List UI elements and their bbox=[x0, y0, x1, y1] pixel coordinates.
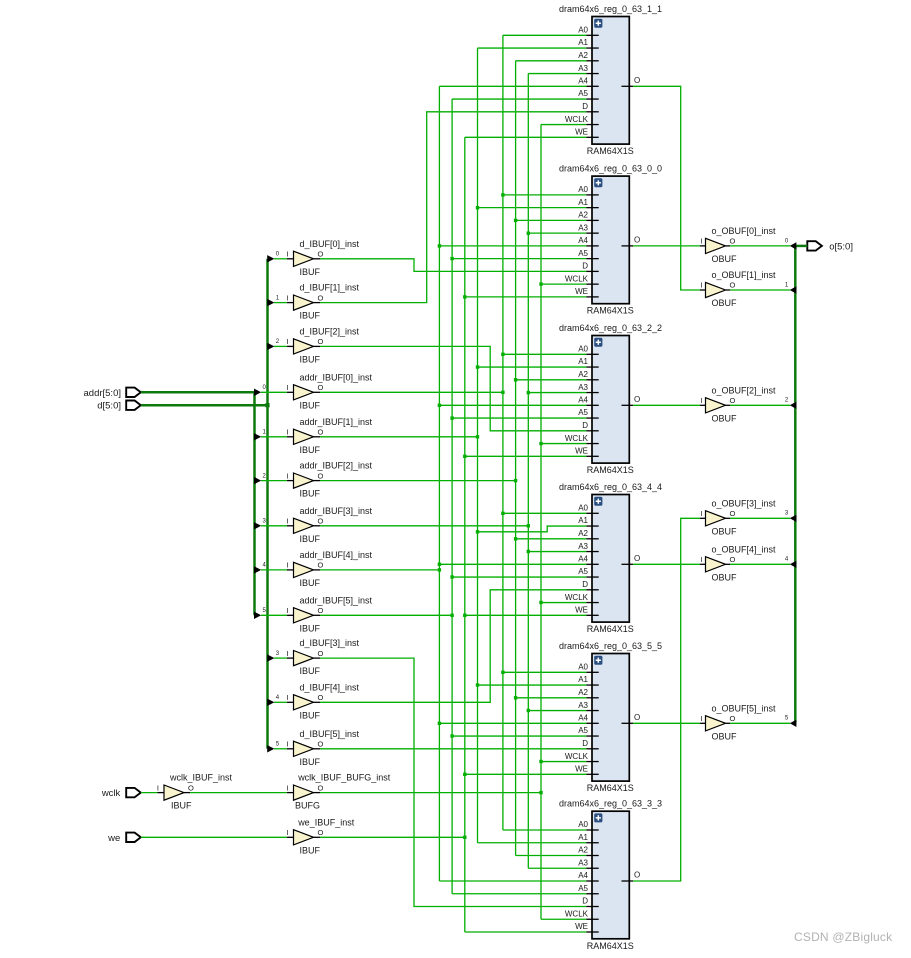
output port o[5:0] bbox=[807, 241, 853, 252]
svg-text:WE: WE bbox=[575, 922, 588, 931]
svg-text:A2: A2 bbox=[578, 370, 588, 379]
svg-text:O: O bbox=[318, 250, 324, 259]
svg-text:A4: A4 bbox=[578, 714, 588, 723]
svg-text:5: 5 bbox=[276, 742, 280, 748]
svg-text:O: O bbox=[634, 871, 640, 880]
svg-text:D: D bbox=[582, 262, 588, 271]
svg-text:WE: WE bbox=[575, 287, 588, 296]
svg-text:0: 0 bbox=[263, 385, 267, 391]
svg-text:O: O bbox=[318, 337, 324, 346]
buffer o_OBUF[4]_inst (OBUF) bbox=[700, 544, 776, 582]
svg-text:O: O bbox=[318, 517, 324, 526]
svg-text:O: O bbox=[634, 713, 640, 722]
svg-text:A1: A1 bbox=[578, 357, 588, 366]
svg-text:A0: A0 bbox=[578, 504, 588, 513]
svg-text:0: 0 bbox=[276, 252, 280, 258]
net block3_3 O to o_OBUF[3] bbox=[633, 518, 700, 881]
svg-text:A4: A4 bbox=[578, 871, 588, 880]
svg-text:1: 1 bbox=[276, 295, 280, 301]
svg-text:2: 2 bbox=[276, 339, 280, 345]
net addr_IBUF[2] vertical+feeds bbox=[514, 61, 586, 856]
svg-text:0: 0 bbox=[785, 238, 789, 244]
svg-text:I: I bbox=[286, 606, 288, 615]
svg-text:dram64x6_reg_0_63_4_4: dram64x6_reg_0_63_4_4 bbox=[559, 482, 662, 492]
svg-text:A4: A4 bbox=[578, 555, 588, 564]
svg-text:d_IBUF[2]_inst: d_IBUF[2]_inst bbox=[300, 326, 360, 336]
svg-text:A2: A2 bbox=[578, 688, 588, 697]
bus tap d[0] bbox=[267, 252, 287, 263]
net d_IBUF[2] to block2_2 D bbox=[320, 346, 586, 430]
svg-text:A0: A0 bbox=[578, 185, 588, 194]
net block4_4 O to o_OBUF[4] bbox=[633, 563, 700, 565]
net d_IBUF[4] to block4_4 D bbox=[320, 590, 586, 703]
input port we bbox=[107, 833, 141, 844]
bus tap o[1] bbox=[730, 282, 796, 293]
input port wclk bbox=[101, 788, 141, 799]
svg-text:O: O bbox=[318, 606, 324, 615]
net block2_2 O to o_OBUF[2] bbox=[633, 404, 700, 406]
wire BUFG output to WCLK vertical bbox=[320, 792, 541, 794]
svg-text:A5: A5 bbox=[578, 726, 588, 735]
svg-text:WE: WE bbox=[575, 606, 588, 615]
svg-text:IBUF: IBUF bbox=[300, 757, 321, 767]
svg-text:I: I bbox=[286, 828, 288, 837]
svg-text:A3: A3 bbox=[578, 64, 588, 73]
wire we port to IBUF bbox=[141, 836, 287, 838]
bus tap o[3] bbox=[730, 511, 796, 522]
svg-text:OBUF: OBUF bbox=[712, 572, 738, 582]
wire addr_IBUF[4] output to vertical bbox=[320, 569, 439, 571]
svg-text:I: I bbox=[286, 250, 288, 259]
svg-text:WCLK: WCLK bbox=[565, 434, 589, 443]
svg-text:A5: A5 bbox=[578, 567, 588, 576]
wire addr_IBUF[3] output to vertical bbox=[320, 525, 528, 527]
svg-text:A0: A0 bbox=[578, 26, 588, 35]
buffer addr_IBUF[4]_inst (IBUF) bbox=[286, 550, 372, 588]
buffer wclk_IBUF_inst (IBUF) bbox=[157, 773, 233, 811]
net addr_IBUF[5] vertical+feeds bbox=[450, 99, 586, 894]
svg-text:dram64x6_reg_0_63_2_2: dram64x6_reg_0_63_2_2 bbox=[559, 323, 662, 333]
svg-text:A5: A5 bbox=[578, 89, 588, 98]
svg-text:OBUF: OBUF bbox=[712, 298, 738, 308]
svg-text:IBUF: IBUF bbox=[300, 354, 321, 364]
bus tap d[3] bbox=[267, 651, 287, 662]
buffer addr_IBUF[0]_inst (IBUF) bbox=[286, 372, 372, 410]
svg-text:I: I bbox=[286, 293, 288, 302]
svg-text:IBUF: IBUF bbox=[300, 267, 321, 277]
net block0_0 O to o_OBUF[0] bbox=[633, 245, 700, 247]
bus tap o[2] bbox=[730, 398, 796, 409]
svg-text:O: O bbox=[730, 237, 736, 246]
svg-text:I: I bbox=[286, 561, 288, 570]
svg-text:IBUF: IBUF bbox=[300, 445, 321, 455]
svg-text:IBUF: IBUF bbox=[300, 845, 321, 855]
bus wire addr[5:0] port to trunk bbox=[141, 391, 254, 394]
svg-text:o_OBUF[0]_inst: o_OBUF[0]_inst bbox=[712, 226, 777, 236]
svg-text:OBUF: OBUF bbox=[712, 526, 738, 536]
bus tap addr[2] bbox=[254, 473, 287, 484]
svg-text:1: 1 bbox=[263, 430, 267, 436]
svg-text:I: I bbox=[157, 783, 159, 792]
svg-text:A3: A3 bbox=[578, 383, 588, 392]
svg-text:d[5:0]: d[5:0] bbox=[97, 401, 121, 412]
bus tap addr[3] bbox=[254, 519, 287, 530]
svg-text:A0: A0 bbox=[578, 663, 588, 672]
svg-text:WE: WE bbox=[575, 447, 588, 456]
svg-text:A1: A1 bbox=[578, 38, 588, 47]
svg-text:A2: A2 bbox=[578, 529, 588, 538]
svg-text:I: I bbox=[286, 428, 288, 437]
svg-text:addr_IBUF[0]_inst: addr_IBUF[0]_inst bbox=[300, 372, 373, 382]
svg-text:I: I bbox=[286, 693, 288, 702]
net block5_5 O to o_OBUF[5] bbox=[633, 722, 700, 724]
svg-text:IBUF: IBUF bbox=[300, 534, 321, 544]
svg-text:IBUF: IBUF bbox=[300, 710, 321, 720]
svg-text:dram64x6_reg_0_63_5_5: dram64x6_reg_0_63_5_5 bbox=[559, 641, 662, 651]
svg-text:D: D bbox=[582, 897, 588, 906]
svg-text:d_IBUF[1]_inst: d_IBUF[1]_inst bbox=[300, 283, 360, 293]
svg-text:WCLK: WCLK bbox=[565, 274, 589, 283]
RAM64X1S block dram64x6_reg_0_63_5_5 bbox=[559, 641, 662, 793]
svg-text:BUFG: BUFG bbox=[295, 801, 320, 811]
svg-text:wclk_IBUF_inst: wclk_IBUF_inst bbox=[169, 773, 233, 783]
svg-text:I: I bbox=[700, 509, 702, 518]
wire addr_IBUF[5] output to vertical bbox=[320, 614, 452, 616]
svg-text:I: I bbox=[286, 649, 288, 658]
svg-text:O: O bbox=[730, 281, 736, 290]
svg-text:addr[5:0]: addr[5:0] bbox=[84, 388, 122, 399]
buffer addr_IBUF[2]_inst (IBUF) bbox=[286, 461, 372, 499]
svg-text:4: 4 bbox=[785, 557, 789, 563]
wire addr_IBUF[2] output to vertical bbox=[320, 480, 516, 482]
svg-text:addr_IBUF[4]_inst: addr_IBUF[4]_inst bbox=[300, 550, 373, 560]
RAM64X1S block dram64x6_reg_0_63_3_3 bbox=[559, 799, 662, 951]
net addr_IBUF[4] vertical+feeds bbox=[438, 86, 587, 881]
svg-text:5: 5 bbox=[785, 716, 789, 722]
net block1_1 O to o_OBUF[1] bbox=[633, 86, 700, 290]
svg-text:O: O bbox=[318, 649, 324, 658]
svg-text:d_IBUF[5]_inst: d_IBUF[5]_inst bbox=[300, 729, 360, 739]
svg-text:RAM64X1S: RAM64X1S bbox=[587, 306, 634, 316]
RAM64X1S block dram64x6_reg_0_63_0_0 bbox=[559, 164, 662, 316]
svg-text:A3: A3 bbox=[578, 859, 588, 868]
svg-text:RAM64X1S: RAM64X1S bbox=[587, 941, 634, 951]
svg-text:dram64x6_reg_0_63_1_1: dram64x6_reg_0_63_1_1 bbox=[559, 4, 662, 14]
svg-text:A4: A4 bbox=[578, 396, 588, 405]
wire we_IBUF output to WE vertical bbox=[320, 836, 465, 838]
svg-text:dram64x6_reg_0_63_0_0: dram64x6_reg_0_63_0_0 bbox=[559, 164, 662, 174]
svg-text:CSDN @ZBigluck: CSDN @ZBigluck bbox=[794, 930, 893, 944]
svg-text:D: D bbox=[582, 580, 588, 589]
bus tap d[1] bbox=[267, 295, 287, 306]
net d_IBUF[3] to block3_3 D bbox=[320, 658, 586, 906]
svg-text:D: D bbox=[582, 739, 588, 748]
svg-text:A2: A2 bbox=[578, 51, 588, 60]
buffer d_IBUF[5]_inst (IBUF) bbox=[286, 729, 359, 767]
svg-text:O: O bbox=[318, 783, 324, 792]
svg-text:o_OBUF[5]_inst: o_OBUF[5]_inst bbox=[712, 703, 777, 713]
bus tap addr[0] bbox=[254, 385, 287, 396]
svg-text:A3: A3 bbox=[578, 542, 588, 551]
svg-text:d_IBUF[0]_inst: d_IBUF[0]_inst bbox=[300, 239, 360, 249]
svg-text:I: I bbox=[700, 281, 702, 290]
input port d[5:0] bbox=[97, 401, 141, 412]
svg-text:A1: A1 bbox=[578, 198, 588, 207]
bus tap o[4] bbox=[730, 557, 796, 568]
svg-text:dram64x6_reg_0_63_3_3: dram64x6_reg_0_63_3_3 bbox=[559, 799, 662, 809]
svg-text:O: O bbox=[634, 554, 640, 563]
svg-text:A2: A2 bbox=[578, 211, 588, 220]
svg-text:IBUF: IBUF bbox=[300, 578, 321, 588]
bus trunk d[5:0] bbox=[266, 259, 269, 749]
bus tap addr[5] bbox=[254, 608, 287, 619]
svg-text:2: 2 bbox=[785, 398, 789, 404]
buffer d_IBUF[0]_inst (IBUF) bbox=[286, 239, 359, 277]
net we_IBUF vertical+feeds bbox=[463, 137, 586, 932]
svg-text:A3: A3 bbox=[578, 701, 588, 710]
svg-text:O: O bbox=[318, 471, 324, 480]
svg-text:I: I bbox=[700, 396, 702, 405]
buffer o_OBUF[1]_inst (OBUF) bbox=[700, 270, 776, 308]
svg-text:I: I bbox=[286, 517, 288, 526]
buffer addr_IBUF[3]_inst (IBUF) bbox=[286, 506, 372, 544]
svg-text:IBUF: IBUF bbox=[300, 311, 321, 321]
svg-text:I: I bbox=[286, 337, 288, 346]
svg-text:O: O bbox=[634, 236, 640, 245]
svg-text:O: O bbox=[730, 509, 736, 518]
svg-text:D: D bbox=[582, 421, 588, 430]
svg-text:RAM64X1S: RAM64X1S bbox=[587, 465, 634, 475]
net addr_IBUF[1] vertical+feeds bbox=[476, 48, 586, 843]
svg-text:O: O bbox=[318, 383, 324, 392]
svg-text:WCLK: WCLK bbox=[565, 910, 589, 919]
net d_IBUF[1] to block1_1 D bbox=[320, 112, 586, 303]
svg-text:I: I bbox=[700, 714, 702, 723]
wire addr_IBUF[1] output to vertical bbox=[320, 436, 478, 438]
net addr_IBUF[3] vertical+feeds bbox=[527, 74, 587, 869]
svg-text:3: 3 bbox=[785, 511, 789, 517]
bus tap addr[1] bbox=[254, 430, 287, 441]
svg-text:RAM64X1S: RAM64X1S bbox=[587, 146, 634, 156]
svg-text:O: O bbox=[730, 555, 736, 564]
svg-text:IBUF: IBUF bbox=[300, 666, 321, 676]
buffer o_OBUF[2]_inst (OBUF) bbox=[700, 385, 776, 423]
watermark bbox=[794, 930, 893, 944]
buffer d_IBUF[3]_inst (IBUF) bbox=[286, 638, 359, 676]
bus tap d[4] bbox=[267, 695, 287, 706]
buffer d_IBUF[2]_inst (IBUF) bbox=[286, 326, 359, 364]
bus trunk addr[5:0] bbox=[253, 392, 256, 615]
bus tap d[5] bbox=[267, 742, 287, 753]
svg-text:d_IBUF[4]_inst: d_IBUF[4]_inst bbox=[300, 682, 360, 692]
svg-text:o_OBUF[3]_inst: o_OBUF[3]_inst bbox=[712, 498, 777, 508]
bus trunk o[5:0] bbox=[794, 246, 797, 723]
svg-text:I: I bbox=[286, 783, 288, 792]
svg-text:4: 4 bbox=[263, 563, 267, 569]
wire addr_IBUF[0] output to vertical bbox=[320, 391, 503, 393]
svg-text:O: O bbox=[318, 428, 324, 437]
svg-text:A5: A5 bbox=[578, 884, 588, 893]
RAM64X1S block dram64x6_reg_0_63_1_1 bbox=[559, 4, 662, 156]
svg-text:we: we bbox=[107, 833, 120, 844]
svg-text:IBUF: IBUF bbox=[300, 400, 321, 410]
wire wclk port to IBUF bbox=[141, 792, 158, 794]
svg-text:IBUF: IBUF bbox=[300, 489, 321, 499]
svg-text:O: O bbox=[318, 693, 324, 702]
svg-text:WCLK: WCLK bbox=[565, 752, 589, 761]
svg-text:I: I bbox=[700, 555, 702, 564]
svg-text:4: 4 bbox=[276, 695, 280, 701]
svg-text:A5: A5 bbox=[578, 408, 588, 417]
svg-text:A4: A4 bbox=[578, 236, 588, 245]
svg-text:IBUF: IBUF bbox=[300, 623, 321, 633]
svg-text:1: 1 bbox=[785, 282, 789, 288]
svg-text:o_OBUF[2]_inst: o_OBUF[2]_inst bbox=[712, 385, 777, 395]
bus tap o[0] bbox=[730, 238, 796, 249]
svg-text:O: O bbox=[318, 740, 324, 749]
buffer we_IBUF_inst (IBUF) bbox=[286, 817, 354, 855]
input port addr[5:0] bbox=[84, 388, 141, 399]
svg-text:wclk: wclk bbox=[101, 788, 121, 799]
svg-text:o_OBUF[4]_inst: o_OBUF[4]_inst bbox=[712, 544, 777, 554]
buffer d_IBUF[1]_inst (IBUF) bbox=[286, 283, 359, 321]
buffer o_OBUF[3]_inst (OBUF) bbox=[700, 498, 776, 536]
svg-text:WCLK: WCLK bbox=[565, 593, 589, 602]
svg-text:A0: A0 bbox=[578, 345, 588, 354]
svg-text:addr_IBUF[5]_inst: addr_IBUF[5]_inst bbox=[300, 595, 373, 605]
bus tap addr[4] bbox=[254, 563, 287, 574]
svg-text:O: O bbox=[730, 396, 736, 405]
svg-text:d_IBUF[3]_inst: d_IBUF[3]_inst bbox=[300, 638, 360, 648]
svg-text:o_OBUF[1]_inst: o_OBUF[1]_inst bbox=[712, 270, 777, 280]
bus tap o[5] bbox=[730, 716, 796, 727]
svg-text:2: 2 bbox=[263, 473, 267, 479]
svg-text:I: I bbox=[286, 740, 288, 749]
buffer addr_IBUF[5]_inst (IBUF) bbox=[286, 595, 372, 633]
net wclk_IBUF_BUFG vertical+feeds bbox=[539, 125, 586, 920]
buffer o_OBUF[5]_inst (OBUF) bbox=[700, 703, 776, 741]
bus tap d[2] bbox=[267, 339, 287, 350]
svg-text:addr_IBUF[3]_inst: addr_IBUF[3]_inst bbox=[300, 506, 373, 516]
svg-text:RAM64X1S: RAM64X1S bbox=[587, 783, 634, 793]
svg-text:A1: A1 bbox=[578, 833, 588, 842]
svg-text:o[5:0]: o[5:0] bbox=[829, 242, 853, 253]
svg-text:A1: A1 bbox=[578, 516, 588, 525]
svg-text:wclk_IBUF_BUFG_inst: wclk_IBUF_BUFG_inst bbox=[297, 773, 391, 783]
svg-text:WCLK: WCLK bbox=[565, 115, 589, 124]
svg-text:A0: A0 bbox=[578, 820, 588, 829]
RAM64X1S block dram64x6_reg_0_63_2_2 bbox=[559, 323, 662, 475]
net d_IBUF[5] to block5_5 D bbox=[320, 748, 586, 750]
svg-text:D: D bbox=[582, 102, 588, 111]
svg-text:A4: A4 bbox=[578, 77, 588, 86]
svg-text:I: I bbox=[700, 237, 702, 246]
svg-text:addr_IBUF[2]_inst: addr_IBUF[2]_inst bbox=[300, 461, 373, 471]
svg-text:WE: WE bbox=[575, 128, 588, 137]
svg-text:I: I bbox=[286, 383, 288, 392]
svg-text:5: 5 bbox=[263, 608, 267, 614]
svg-text:IBUF: IBUF bbox=[171, 801, 192, 811]
svg-text:3: 3 bbox=[263, 519, 267, 525]
svg-text:A1: A1 bbox=[578, 675, 588, 684]
svg-text:O: O bbox=[318, 561, 324, 570]
net d_IBUF[0] to block0_0 D bbox=[320, 259, 586, 272]
bus wire d[5:0] port to trunk bbox=[141, 403, 270, 407]
svg-text:OBUF: OBUF bbox=[712, 413, 738, 423]
svg-text:O: O bbox=[188, 783, 194, 792]
svg-text:O: O bbox=[634, 395, 640, 404]
svg-text:O: O bbox=[730, 714, 736, 723]
svg-text:we_IBUF_inst: we_IBUF_inst bbox=[297, 817, 355, 827]
RAM64X1S block dram64x6_reg_0_63_4_4 bbox=[559, 482, 662, 634]
svg-text:O: O bbox=[318, 293, 324, 302]
svg-text:addr_IBUF[1]_inst: addr_IBUF[1]_inst bbox=[300, 417, 373, 427]
wire wclk_IBUF to BUFG bbox=[190, 792, 287, 794]
svg-text:3: 3 bbox=[276, 651, 280, 657]
net addr_IBUF[0] vertical+feeds bbox=[501, 35, 586, 830]
svg-text:A3: A3 bbox=[578, 223, 588, 232]
buffer o_OBUF[0]_inst (OBUF) bbox=[700, 226, 776, 264]
svg-text:WE: WE bbox=[575, 765, 588, 774]
svg-text:O: O bbox=[634, 76, 640, 85]
svg-text:A5: A5 bbox=[578, 249, 588, 258]
svg-text:OBUF: OBUF bbox=[712, 731, 738, 741]
svg-text:RAM64X1S: RAM64X1S bbox=[587, 624, 634, 634]
svg-text:I: I bbox=[286, 471, 288, 480]
buffer addr_IBUF[1]_inst (IBUF) bbox=[286, 417, 372, 455]
svg-text:A2: A2 bbox=[578, 846, 588, 855]
svg-text:OBUF: OBUF bbox=[712, 254, 738, 264]
buffer d_IBUF[4]_inst (IBUF) bbox=[286, 682, 359, 720]
bus wire o trunk to port bbox=[795, 245, 807, 248]
buffer wclk_IBUF_BUFG_inst (BUFG) bbox=[286, 773, 390, 811]
svg-text:O: O bbox=[318, 828, 324, 837]
